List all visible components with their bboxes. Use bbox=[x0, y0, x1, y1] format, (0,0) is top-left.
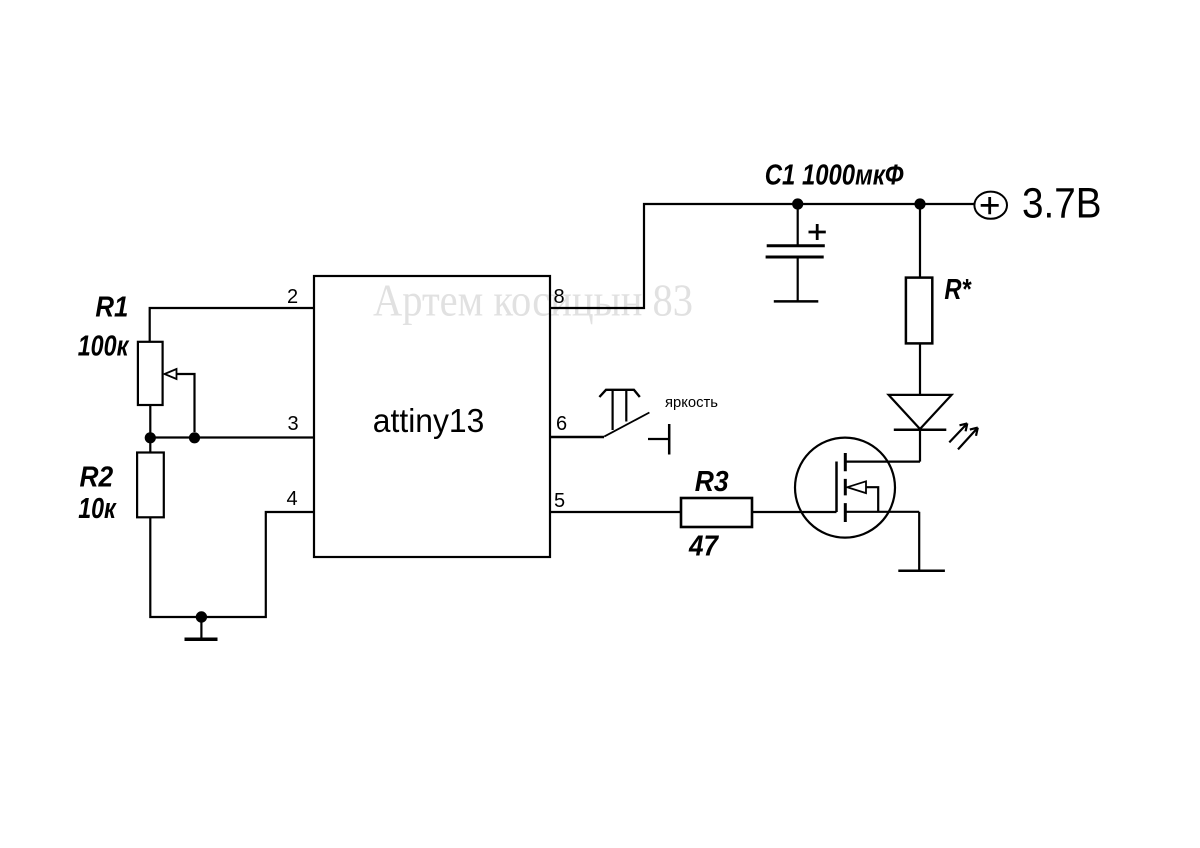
pin 4 label bbox=[286, 488, 297, 510]
svg-text:10к: 10к bbox=[78, 493, 117, 525]
svg-text:2: 2 bbox=[287, 286, 298, 308]
junction node dot E (R* top) bbox=[914, 198, 925, 209]
resistor R* body bbox=[906, 204, 932, 343]
wire source to ground bbox=[918, 512, 920, 570]
label R2 bbox=[80, 462, 114, 494]
label 10к bbox=[78, 493, 117, 525]
MOSFET VT1 bbox=[795, 438, 920, 538]
svg-text:47: 47 bbox=[688, 530, 720, 562]
svg-text:4: 4 bbox=[286, 488, 297, 510]
label R1 bbox=[95, 292, 128, 324]
wire pin2 to R1 top bbox=[150, 308, 314, 342]
label яркость bbox=[665, 394, 718, 411]
wire pin5 to R3 bbox=[550, 511, 681, 513]
battery positive terminal symbol bbox=[974, 192, 1007, 219]
svg-text:яркость: яркость bbox=[665, 394, 718, 411]
junction node dot A bbox=[145, 432, 156, 443]
svg-text:5: 5 bbox=[554, 490, 565, 512]
pin 5 label bbox=[554, 490, 565, 512]
wire pin8 to top rail bbox=[550, 204, 975, 308]
label 3.7В bbox=[1022, 180, 1102, 228]
svg-text:R2: R2 bbox=[80, 462, 114, 494]
LED light arrows bbox=[949, 423, 978, 449]
push button SB1 bbox=[599, 390, 669, 455]
label 100к bbox=[78, 331, 130, 363]
svg-text:3: 3 bbox=[287, 413, 298, 435]
resistor R3 body bbox=[681, 498, 752, 527]
IC U1 attiny13 bbox=[314, 276, 550, 557]
svg-text:attiny13: attiny13 bbox=[373, 402, 485, 439]
wire pin3 bbox=[150, 436, 314, 438]
label R3 bbox=[695, 466, 729, 498]
wire R1 bottom to node bbox=[149, 405, 151, 453]
capacitor C1 bbox=[766, 204, 825, 301]
pin 8 label bbox=[553, 286, 564, 308]
pin 2 label bbox=[287, 286, 298, 308]
pin 3 label bbox=[287, 413, 298, 435]
svg-text:8: 8 bbox=[553, 286, 564, 308]
potentiometer R1 body bbox=[138, 342, 163, 405]
label R* bbox=[944, 274, 972, 306]
wire R3 to gate bbox=[752, 511, 837, 513]
junction node dot D (C1 top) bbox=[792, 198, 803, 209]
ground symbol right bbox=[898, 570, 945, 573]
LED D1 bbox=[889, 343, 952, 461]
R1 wiper arrow bbox=[165, 369, 195, 432]
C1 polarity plus bbox=[809, 224, 826, 240]
junction node dot B (wiper) bbox=[189, 432, 200, 443]
svg-text:6: 6 bbox=[556, 413, 567, 435]
wire R2 bottom to ground rail bbox=[150, 512, 314, 617]
svg-text:R1: R1 bbox=[95, 292, 128, 324]
svg-text:100к: 100к bbox=[78, 331, 130, 363]
ground symbol left bbox=[185, 617, 218, 639]
label 47 bbox=[688, 530, 720, 562]
pin 6 label bbox=[556, 413, 567, 435]
junction node dot C (ground tap) bbox=[196, 611, 207, 622]
watermark bbox=[373, 275, 693, 326]
svg-text:C1 1000мкФ: C1 1000мкФ bbox=[765, 160, 904, 192]
svg-text:R*: R* bbox=[944, 274, 972, 306]
svg-text:3.7В: 3.7В bbox=[1022, 180, 1102, 228]
label C1 1000мкФ bbox=[765, 160, 904, 192]
wire pin6 to button bbox=[550, 436, 604, 438]
svg-text:R3: R3 bbox=[695, 466, 729, 498]
resistor R2 body bbox=[137, 453, 164, 518]
